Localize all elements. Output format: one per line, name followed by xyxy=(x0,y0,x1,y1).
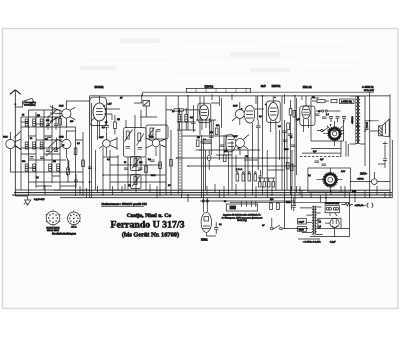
svg-text:Meßinstrument : 4500Ω/V gemäß: Meßinstrument : 4500Ω/V gemäß DIN xyxy=(102,202,147,206)
svg-text:EBL21: EBL21 xyxy=(303,85,312,89)
wire left-grid xyxy=(15,110,89,196)
tube V2 xyxy=(3,132,21,156)
svg-text:5000 Ω/V): 5000 Ω/V) xyxy=(237,220,247,222)
svg-text:≈150Ω: ≈150Ω xyxy=(357,178,364,181)
coil L4 xyxy=(25,142,28,149)
svg-text:5000: 5000 xyxy=(299,229,305,231)
svg-text:220V≈: 220V≈ xyxy=(360,173,368,176)
svg-text:Sockelschaltungen: Sockelschaltungen xyxy=(52,231,77,235)
capacitor C17 xyxy=(214,222,219,234)
svg-text:0,1µF≈1kV: 0,1µF≈1kV xyxy=(34,198,45,201)
capacitor C9 xyxy=(150,160,155,162)
transformer note xyxy=(351,116,368,128)
capacitor C31 xyxy=(365,128,369,130)
capacitor box C20 xyxy=(298,227,307,232)
wire center-vert xyxy=(178,96,295,205)
capacitor C32 xyxy=(74,174,78,188)
capacitor C11 xyxy=(283,140,288,142)
fuse F3 xyxy=(341,203,373,208)
capacitor C22 xyxy=(209,136,214,138)
inductor L14 xyxy=(68,158,70,177)
coil L1 xyxy=(25,119,28,126)
capacitor C16 xyxy=(322,164,327,166)
capacitor C13 xyxy=(315,114,320,116)
resistor R6 xyxy=(145,166,148,173)
capacitor C2 xyxy=(54,117,58,130)
capacitor C5 xyxy=(30,157,34,159)
coil L6 xyxy=(40,142,43,149)
capacitor C18 xyxy=(292,198,297,212)
wire V2-lead xyxy=(10,156,21,172)
coil L7 xyxy=(25,164,28,171)
magic eye EM11 xyxy=(201,198,216,242)
dial scale box xyxy=(186,88,250,92)
resistor R13 xyxy=(312,100,329,103)
svg-text:2M: 2M xyxy=(197,137,200,139)
svg-text:≈2500Ω: ≈2500Ω xyxy=(351,116,354,124)
svg-text:2M: 2M xyxy=(117,119,120,121)
wire right-col xyxy=(285,98,297,190)
resistor R7 xyxy=(159,162,162,169)
capacitor C25 xyxy=(47,136,51,138)
field coil D2 xyxy=(308,168,350,192)
resistor R11 xyxy=(254,172,257,181)
speaker coil D1 xyxy=(323,121,344,157)
wire extra-center xyxy=(166,96,292,190)
tube U4 EBL21 xyxy=(300,96,315,132)
tube V4 xyxy=(99,132,117,156)
capacitor C24 xyxy=(256,120,261,133)
resistor R4 xyxy=(67,160,70,183)
socket S-right xyxy=(68,210,81,228)
rectifier AZ11 xyxy=(318,218,341,236)
resistor R9 xyxy=(242,172,245,181)
terminal box TB xyxy=(226,202,257,212)
capacitor C29 xyxy=(88,150,96,190)
svg-text:Czeija, Nissl u. Co: Czeija, Nissl u. Co xyxy=(127,213,172,219)
tube V3 xyxy=(57,131,72,158)
coil L2 xyxy=(33,119,36,126)
capacitor C28 xyxy=(288,134,293,136)
svg-text:1M: 1M xyxy=(128,185,131,187)
coil L13 xyxy=(185,108,188,130)
svg-text:1,5V: 1,5V xyxy=(108,104,113,106)
resistor R15 xyxy=(270,203,273,210)
capacitor C27 xyxy=(282,131,287,133)
wire right-box xyxy=(311,98,344,141)
svg-text:bei Netzspann. 220V gemessen (: bei Netzspann. 220V gemessen (Instrument xyxy=(222,216,263,219)
svg-text:Angaben für 6,3V-Bereich: 6,3V: Angaben für 6,3V-Bereich: 6,3V/0,3A; U= xyxy=(223,214,262,217)
svg-text:L4: L4 xyxy=(319,226,321,228)
svg-text:1 2 3 4: 1 2 3 4 xyxy=(236,169,243,171)
tube U3 EBF11 xyxy=(267,96,281,132)
resistor R10 xyxy=(248,172,251,181)
resistor R5 xyxy=(114,115,117,135)
wire right-vert xyxy=(365,92,392,198)
trimmer TC1 xyxy=(316,110,340,112)
capacitor C10 xyxy=(259,170,264,183)
svg-text:AZ 11: AZ 11 xyxy=(71,225,77,228)
resistor R2 xyxy=(74,148,77,155)
coil L11b xyxy=(131,175,142,189)
coil L8 xyxy=(33,164,36,171)
resistor R19 xyxy=(223,155,226,162)
resistor R16 xyxy=(277,203,280,210)
socket S-left xyxy=(46,210,61,233)
resistor R24 xyxy=(286,163,293,171)
switch S2 xyxy=(271,202,309,230)
capacitor C21 xyxy=(191,116,196,129)
svg-text:EM11: EM11 xyxy=(201,238,208,242)
antenna A1 xyxy=(10,90,21,196)
svg-text:ECH11: ECH11 xyxy=(95,85,105,89)
svg-text:(bis Gerät Nr. 16760): (bis Gerät Nr. 16760) xyxy=(122,232,179,239)
svg-text:EBF11: EBF11 xyxy=(272,84,281,88)
coil L9 xyxy=(49,164,52,171)
tube V7 xyxy=(226,134,249,155)
node dotU3 xyxy=(274,97,276,99)
ghost bleedthrough xyxy=(60,42,360,74)
resistor R14 xyxy=(331,100,337,103)
shield rail xyxy=(90,96,92,198)
capacitor C4 xyxy=(54,150,58,152)
tube V1 xyxy=(50,101,90,127)
bus lines xyxy=(12,190,392,202)
wire center-horiz xyxy=(177,103,296,166)
coil L5 xyxy=(33,142,36,149)
capacitor C1 xyxy=(46,117,50,130)
node dot2 xyxy=(262,95,264,97)
bus rail top xyxy=(90,92,390,96)
voltage selector xyxy=(325,203,340,216)
capacitor C7 xyxy=(124,168,129,170)
svg-text:1M: 1M xyxy=(53,161,56,163)
power transformer T3 xyxy=(300,206,323,237)
label instrument xyxy=(101,202,147,206)
chassis dashed xyxy=(300,156,341,158)
bus drops xyxy=(45,120,385,210)
arrester F1 xyxy=(15,98,36,107)
wire U1 xyxy=(104,94,142,120)
loudspeaker LS xyxy=(365,119,389,168)
tube U2 EBF11 xyxy=(198,96,211,130)
svg-text:0,1µF: 0,1µF xyxy=(299,222,305,224)
coil L11 xyxy=(131,157,142,171)
switch S1 xyxy=(317,128,344,132)
resistor R23 xyxy=(293,111,296,118)
svg-text:4–6500 Hz: 4–6500 Hz xyxy=(362,86,374,89)
capacitor C23 xyxy=(220,145,225,147)
coil L12 xyxy=(178,108,181,130)
resistor row R25 xyxy=(258,178,275,187)
svg-text:Ortsempfang: Ortsempfang xyxy=(25,103,36,106)
value labels xyxy=(22,97,357,228)
resistor R26 xyxy=(170,160,173,167)
wire mid-grid xyxy=(100,120,166,196)
tube V5 xyxy=(146,125,168,156)
resistor R12 xyxy=(287,123,290,130)
resistor R22 xyxy=(289,109,292,116)
capacitor C26 xyxy=(40,157,44,159)
svg-text:0,3A: 0,3A xyxy=(352,190,357,193)
svg-text:50 Hz 220V: 50 Hz 220V xyxy=(364,90,375,92)
capacitor C3 xyxy=(46,150,50,152)
node dotU3b xyxy=(265,104,267,106)
svg-text:6,3V: 6,3V xyxy=(341,171,346,173)
switch S3 xyxy=(140,101,157,118)
note text xyxy=(222,214,263,222)
wire fan-left xyxy=(14,110,57,156)
coil L3 xyxy=(40,119,43,126)
fuse F2 xyxy=(350,172,390,184)
node dot1 xyxy=(187,95,189,97)
wire power xyxy=(298,200,350,239)
ghost bleedthrough2 xyxy=(80,38,290,72)
resistor R3 xyxy=(82,160,85,167)
ground xyxy=(15,196,45,205)
svg-text:Ferrando U 317/3: Ferrando U 317/3 xyxy=(110,220,184,231)
svg-text:L3: L3 xyxy=(319,222,321,224)
node dots xyxy=(28,95,371,199)
resistor R18 xyxy=(215,128,218,135)
tube U1 ECH11 xyxy=(90,85,107,140)
coil L10 xyxy=(57,164,60,171)
output transformer T2 xyxy=(350,96,365,144)
svg-text:1-6500 Hz: 1-6500 Hz xyxy=(341,101,353,104)
IF box T1 xyxy=(124,110,146,157)
resistor R1 xyxy=(59,119,62,126)
capacitor C12 xyxy=(291,145,296,147)
capacitor C15 xyxy=(315,161,320,163)
svg-text:110 125 150 220V: 110 125 150 220V xyxy=(325,203,340,205)
capacitor box C19 xyxy=(298,219,307,225)
resistor R21 xyxy=(166,109,199,112)
capacitor C30 xyxy=(356,120,360,131)
svg-text:≈0,4Ω: ≈0,4Ω xyxy=(366,122,369,128)
wire top-ties xyxy=(212,94,302,106)
svg-text:3λF: 3λF xyxy=(261,84,266,88)
svg-text:0,1µF: 0,1µF xyxy=(330,241,336,243)
svg-text:≈ f=50Hz 4×0,65A: ≈ f=50Hz 4×0,65A xyxy=(303,240,321,243)
svg-text:2M: 2M xyxy=(37,115,40,117)
wire left-ties xyxy=(21,122,83,186)
wire D1-bottom xyxy=(302,141,348,157)
capacitor C8 xyxy=(138,168,143,170)
capacitor C14 xyxy=(322,117,327,119)
capacitor C6 xyxy=(104,120,109,131)
resistor R8 xyxy=(236,172,239,181)
tube V6 xyxy=(232,102,264,125)
capacitor row CR xyxy=(329,117,346,123)
node dotSh xyxy=(89,181,91,183)
label hz-box xyxy=(340,99,355,104)
resistor R17 xyxy=(196,140,199,147)
svg-text:EBF11: EBF11 xyxy=(205,85,214,89)
